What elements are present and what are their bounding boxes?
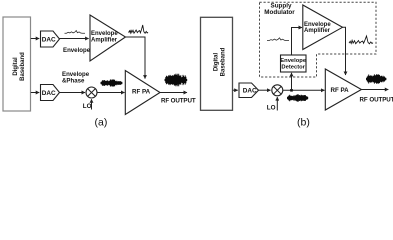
svg-text:Baseband: Baseband bbox=[221, 47, 227, 76]
svg-text:LO: LO bbox=[267, 104, 276, 111]
svg-text:LO: LO bbox=[83, 103, 92, 110]
svg-text:Amplifier: Amplifier bbox=[304, 28, 331, 34]
svg-text:RF OUTPUT: RF OUTPUT bbox=[161, 97, 196, 104]
svg-text:Detector: Detector bbox=[281, 65, 305, 71]
svg-text:DAC: DAC bbox=[42, 90, 56, 97]
svg-text:RF OUTPUT: RF OUTPUT bbox=[360, 97, 393, 104]
svg-text:Envelope: Envelope bbox=[304, 22, 331, 28]
svg-text:Envelope: Envelope bbox=[280, 58, 307, 64]
svg-text:(a): (a) bbox=[95, 116, 108, 128]
svg-text:Digital: Digital bbox=[214, 53, 220, 72]
svg-text:(b): (b) bbox=[297, 116, 310, 128]
svg-text:Envelope: Envelope bbox=[91, 31, 118, 37]
svg-text:&Phase: &Phase bbox=[62, 77, 85, 84]
svg-text:Modulator: Modulator bbox=[264, 9, 295, 16]
svg-text:RF PA: RF PA bbox=[132, 88, 151, 95]
svg-text:Baseband: Baseband bbox=[20, 52, 26, 81]
svg-text:Digital: Digital bbox=[13, 57, 19, 76]
svg-text:Amplifier: Amplifier bbox=[91, 37, 118, 43]
svg-text:Envelope: Envelope bbox=[63, 47, 91, 54]
svg-text:DAC: DAC bbox=[42, 36, 56, 43]
svg-text:DAC: DAC bbox=[243, 88, 257, 95]
svg-text:RF PA: RF PA bbox=[331, 87, 350, 94]
